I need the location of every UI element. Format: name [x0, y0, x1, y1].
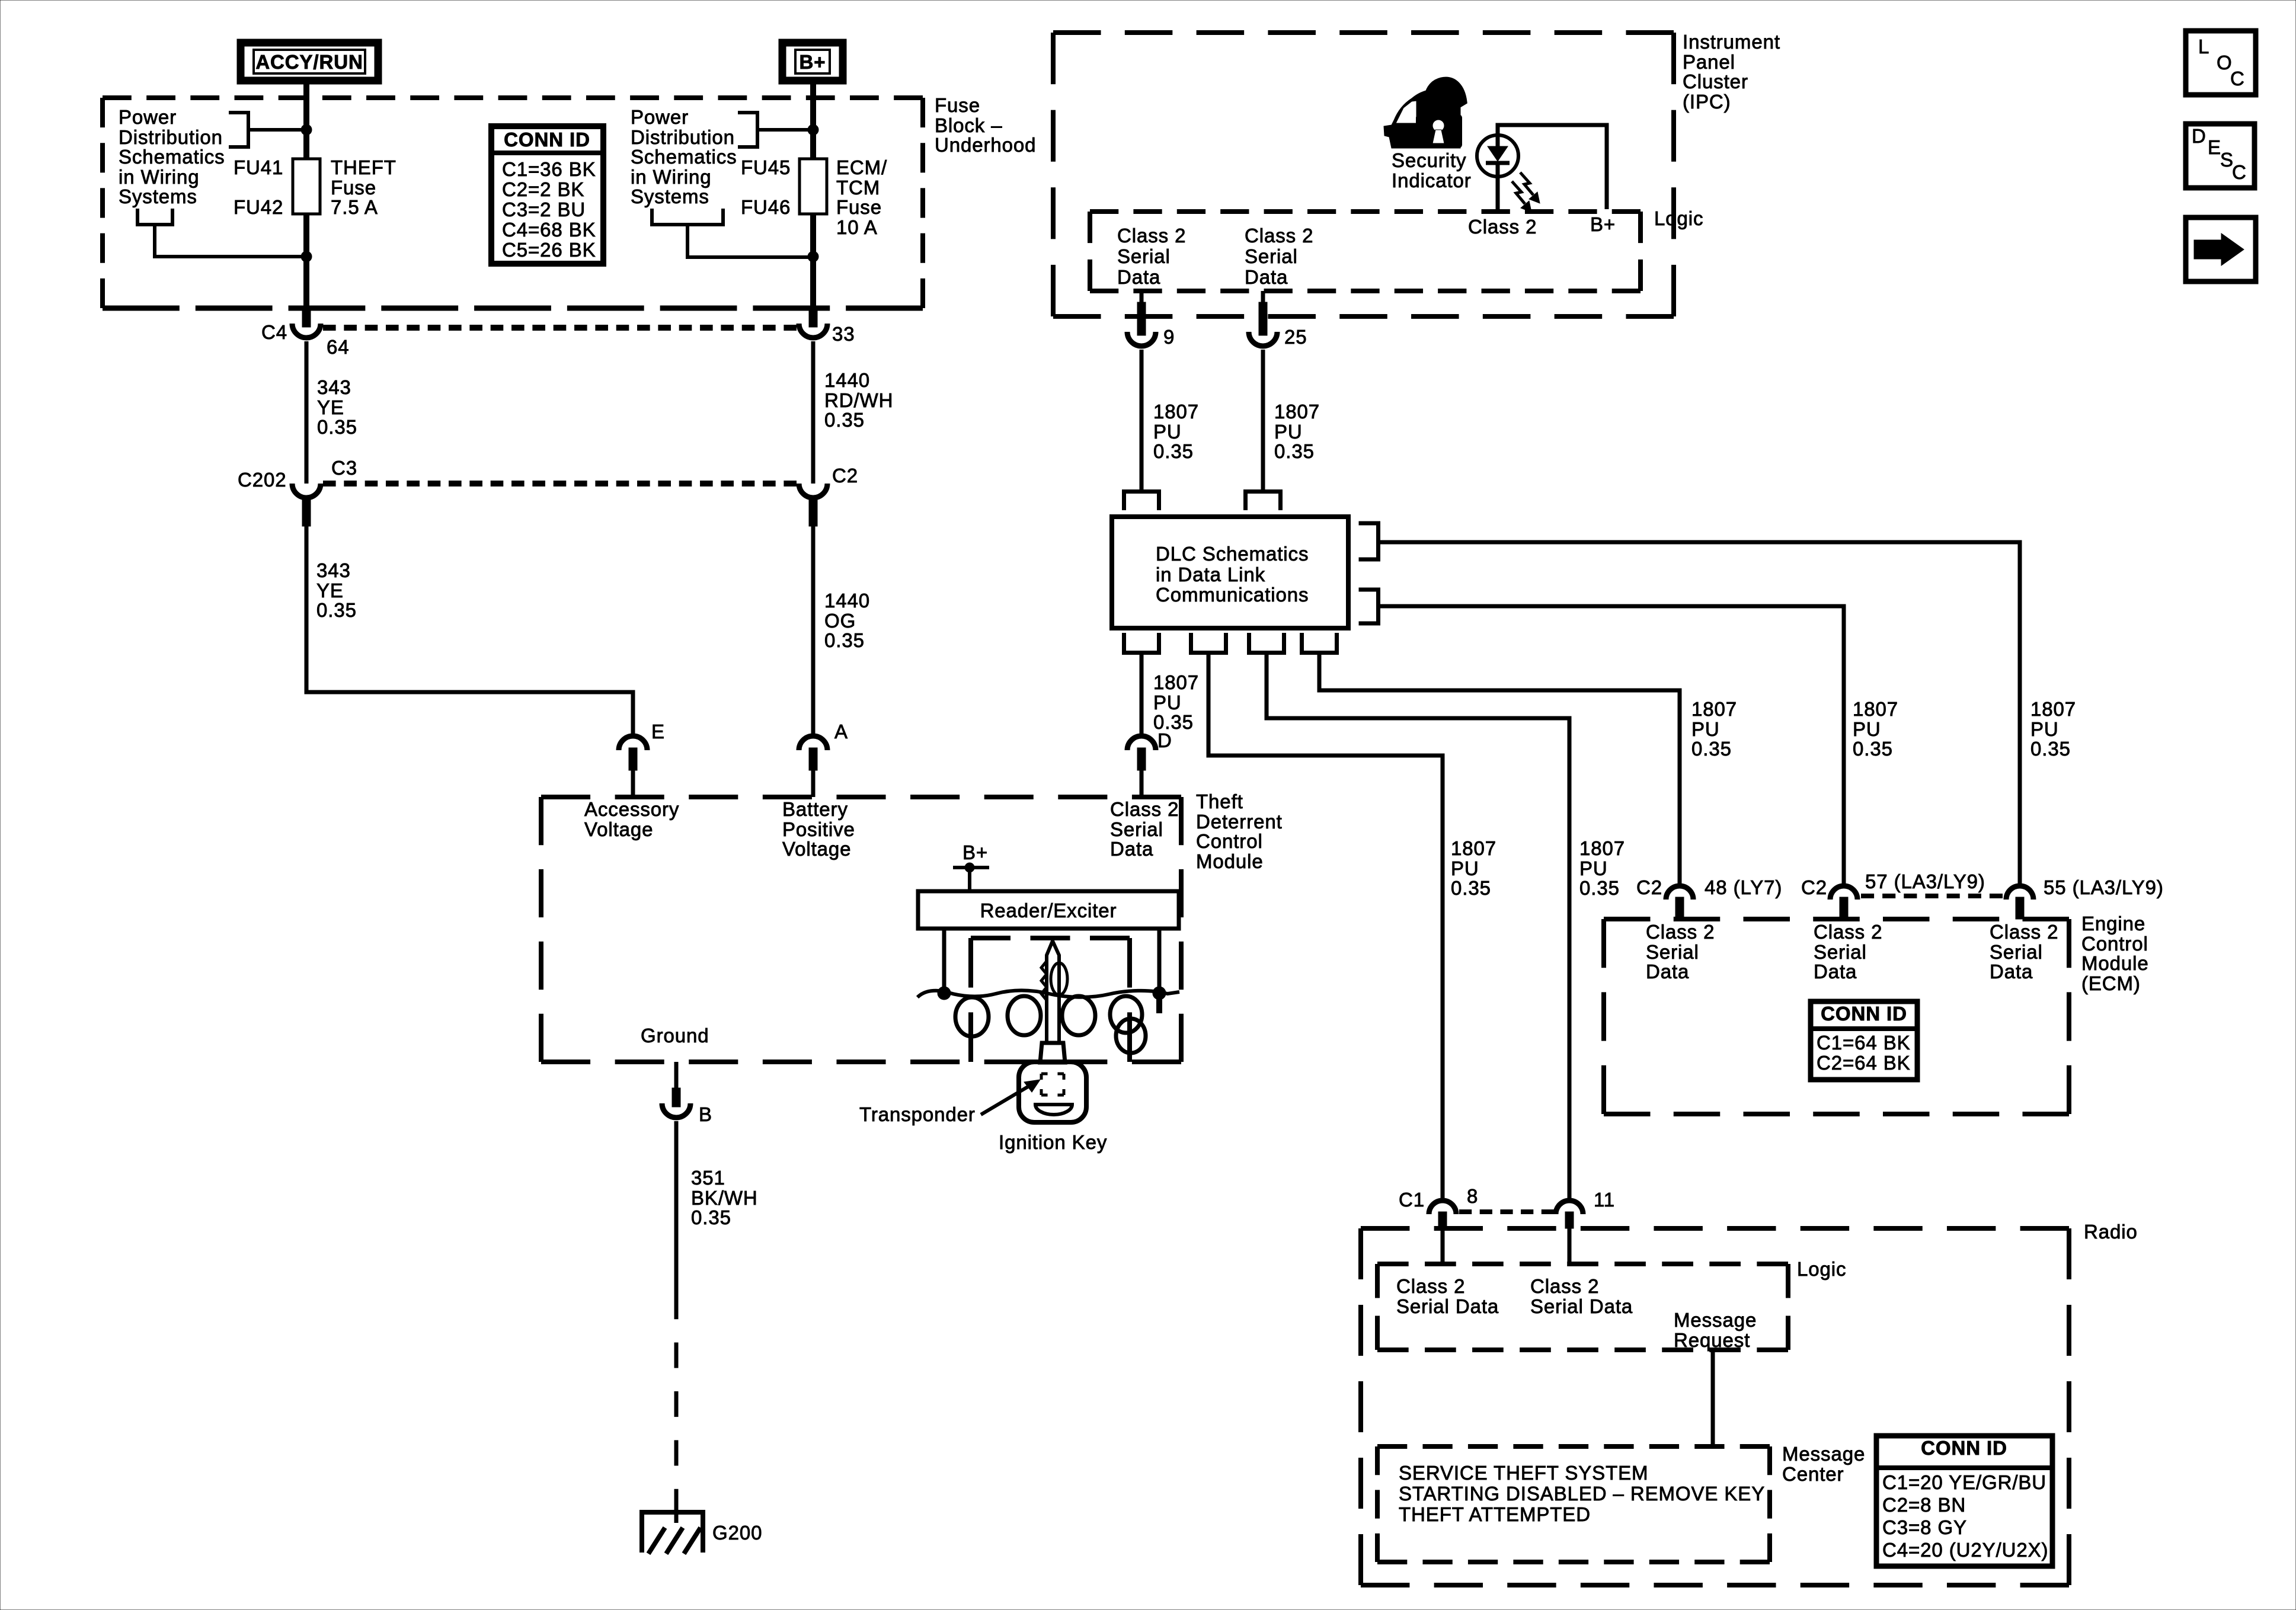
wire 351 BK/WH 0.35 [674, 1121, 679, 1294]
svg-text:C2: C2 [1636, 876, 1662, 898]
svg-text:Power: Power [119, 106, 177, 128]
svg-text:CONN ID: CONN ID [1821, 1003, 1907, 1025]
terminal label Battery Positive Voltage [782, 798, 855, 860]
svg-text:A: A [834, 721, 848, 742]
svg-text:Reader/Exciter: Reader/Exciter [980, 900, 1117, 921]
message center display text [1399, 1462, 1765, 1525]
svg-text:Serial: Serial [1646, 941, 1699, 963]
IPC logic sub-box [1090, 212, 1641, 291]
svg-text:C202: C202 [238, 469, 287, 491]
node left coil junction [938, 987, 951, 1000]
node: ACCY/RUN feed junction [301, 124, 312, 135]
label wire 1807 PU 0.35 (to ECM 55) [2030, 698, 2076, 760]
svg-text:Data: Data [1646, 961, 1689, 982]
svg-text:Logic: Logic [1797, 1258, 1846, 1280]
icon security indicator (car with padlock) [1384, 79, 1464, 148]
svg-text:Indicator: Indicator [1392, 169, 1472, 191]
svg-text:L: L [2198, 36, 2209, 57]
reference bracket lower-right [652, 209, 723, 225]
reference text Power Distribution Schematics (right) [631, 106, 737, 207]
svg-text:0.35: 0.35 [1451, 877, 1491, 899]
svg-text:Class 2: Class 2 [1396, 1275, 1465, 1297]
svg-text:Underhood: Underhood [935, 134, 1036, 156]
connector terminal A [799, 721, 848, 797]
module box Engine Control Module (ECM) [1604, 919, 2069, 1114]
in-line connector dashed line 57-55 [1861, 894, 2003, 898]
terminal label Accessory Voltage [584, 798, 679, 840]
svg-text:0.35: 0.35 [824, 409, 865, 431]
svg-text:Class 2: Class 2 [1814, 921, 1882, 943]
svg-text:Engine: Engine [2081, 913, 2145, 934]
transponder chip (dashed square) [1041, 1074, 1064, 1095]
svg-text:Serial: Serial [1990, 941, 2043, 963]
svg-text:0.35: 0.35 [1153, 440, 1194, 462]
svg-text:Ground: Ground [641, 1025, 709, 1046]
svg-text:B+: B+ [800, 51, 826, 73]
radio logic sub-box [1377, 1264, 1788, 1350]
wire 343 YE 0.35 to TDCM terminal E [306, 526, 633, 735]
svg-text:C2: C2 [1801, 876, 1827, 898]
label Theft Deterrent Control Module [1196, 790, 1283, 872]
svg-text:Center: Center [1782, 1463, 1844, 1485]
in-line connector dashed line C202 C3-C2 [323, 481, 797, 486]
svg-text:Transponder: Transponder [859, 1103, 976, 1125]
link wire from bracket to fuse output [155, 225, 304, 257]
svg-text:D: D [1157, 729, 1172, 751]
svg-text:25: 25 [1284, 326, 1307, 348]
label Fuse Block - Underhood [935, 94, 1036, 156]
svg-text:343: 343 [317, 376, 351, 398]
wire 1807 PU 0.35 DLC to TDCM terminal D [1140, 654, 1144, 735]
svg-text:0.35: 0.35 [317, 416, 357, 438]
svg-text:Control: Control [1196, 830, 1263, 852]
svg-text:PU: PU [1853, 718, 1881, 740]
svg-text:(ECM): (ECM) [2081, 972, 2141, 994]
label Transponder with arrow [859, 1080, 1040, 1125]
connector terminal B (ground) [662, 1062, 712, 1125]
label Message Center [1782, 1443, 1865, 1485]
label ECM/TCM Fuse 10 A [836, 156, 887, 238]
label wire 1807 PU 0.35 (to D) [1153, 671, 1199, 733]
svg-text:TCM: TCM [836, 177, 880, 199]
svg-text:Class 2: Class 2 [1245, 225, 1313, 247]
DLC bottom tab (to radio pin 11) [1249, 633, 1284, 653]
connector terminal E [619, 721, 665, 797]
label wire 1440 RD/WH 0.35 [824, 369, 893, 431]
svg-text:0.35: 0.35 [1691, 738, 1732, 760]
reference bracket upper-right [738, 113, 757, 147]
svg-text:Data: Data [1245, 266, 1288, 288]
svg-text:C4=20 (U2Y/U2X): C4=20 (U2Y/U2X) [1882, 1539, 2048, 1561]
power feed label B+ [782, 43, 843, 81]
wire 1807 PU 0.35 (IPC 25 to DLC) [1261, 350, 1265, 489]
svg-text:in Wiring: in Wiring [119, 166, 199, 188]
node: B+ feed junction [808, 124, 818, 135]
svg-text:Data: Data [1117, 266, 1160, 288]
svg-text:Serial Data: Serial Data [1396, 1295, 1499, 1317]
svg-text:1807: 1807 [1153, 401, 1199, 422]
transponder exciter field dashed box [971, 938, 1130, 1062]
svg-text:Systems: Systems [631, 185, 709, 207]
svg-text:FU45: FU45 [741, 156, 791, 178]
svg-text:48 (LY7): 48 (LY7) [1705, 876, 1782, 898]
svg-text:ACCY/RUN: ACCY/RUN [255, 51, 363, 73]
svg-text:C1=36 BK: C1=36 BK [502, 158, 596, 180]
DLC input tab (from IPC 9) [1124, 492, 1159, 511]
icon LOC box [2186, 31, 2256, 95]
svg-text:0.35: 0.35 [1853, 738, 1893, 760]
svg-text:Class 2: Class 2 [1990, 921, 2058, 943]
terminal label Class 2 Serial Data (ECM 48) [1646, 921, 1715, 982]
radio message center sub-box [1377, 1446, 1770, 1562]
svg-text:Systems: Systems [119, 185, 197, 207]
wire message request to message center [1711, 1350, 1715, 1446]
svg-text:FU46: FU46 [741, 196, 791, 218]
svg-text:BK/WH: BK/WH [691, 1187, 758, 1209]
terminal label Class 2 Serial Data (radio 8) [1396, 1275, 1499, 1317]
label Radio [2084, 1221, 2138, 1243]
node: ECM/TCM fuse output junction [808, 251, 818, 262]
svg-text:Schematics: Schematics [119, 146, 225, 168]
DLC input tab (from IPC 25) [1246, 492, 1281, 511]
wire DLC to radio pin 11 [1267, 654, 1569, 1199]
svg-text:57 (LA3/LY9): 57 (LA3/LY9) [1865, 870, 1985, 892]
svg-text:0.35: 0.35 [691, 1206, 731, 1228]
terminal label B+ (LED) [1590, 213, 1616, 235]
terminal label Class 2 Serial Data (IPC pin 9) [1117, 225, 1186, 288]
wire 343 YE 0.35 (circuit 343) [305, 341, 309, 484]
svg-text:Schematics: Schematics [631, 146, 737, 168]
svg-text:C2=8 BN: C2=8 BN [1882, 1494, 1966, 1516]
coil loop 4 [1110, 996, 1142, 1033]
svg-text:0.35: 0.35 [824, 629, 865, 651]
svg-text:1807: 1807 [1853, 698, 1898, 720]
wire LED anode to B+ [1498, 125, 1607, 209]
exciter coil wavy conductor [917, 990, 1179, 997]
block Reader/Exciter [918, 891, 1179, 929]
link wire to THEFT fuse feed [248, 128, 304, 132]
svg-text:1807: 1807 [1153, 671, 1199, 693]
svg-text:11: 11 [1594, 1189, 1615, 1211]
key bow slot [1035, 1105, 1072, 1115]
connector pin 33 [799, 307, 855, 345]
svg-text:YE: YE [316, 580, 344, 601]
svg-text:Communications: Communications [1156, 584, 1309, 606]
connector C202 pin C3 [238, 457, 357, 526]
svg-text:9: 9 [1163, 326, 1175, 348]
link wire from bracket to ECM/TCM fuse output [687, 225, 811, 257]
svg-text:351: 351 [691, 1167, 725, 1189]
label Security Indicator [1392, 149, 1472, 191]
connector pin C2 [799, 465, 858, 526]
connector pin 11 [1556, 1189, 1615, 1228]
svg-text:Block –: Block – [935, 114, 1003, 136]
internal B+ terminal [953, 841, 989, 891]
terminal label Class 2 Serial Data (ECM 57) [1814, 921, 1882, 982]
node: THEFT fuse output junction [301, 251, 312, 262]
connector pin 9 [1127, 291, 1175, 348]
svg-text:8: 8 [1467, 1185, 1478, 1207]
DLC right tab (to ECM pin 57) [1359, 590, 1379, 623]
svg-text:Class 2: Class 2 [1110, 798, 1179, 820]
wire DLC to radio pin 8 [1208, 654, 1443, 1199]
CONN ID table (radio) [1876, 1436, 2052, 1566]
svg-text:Serial: Serial [1814, 941, 1867, 963]
right coil tail [1156, 993, 1162, 1013]
svg-text:64: 64 [327, 336, 350, 358]
svg-text:7.5 A: 7.5 A [331, 196, 378, 218]
reference bracket lower-left [137, 209, 172, 225]
label wire 1807 PU 0.35 (to radio 11) [1579, 837, 1625, 899]
reference bracket upper-left [229, 113, 248, 147]
svg-text:Battery: Battery [782, 798, 848, 820]
svg-text:C2: C2 [832, 465, 858, 486]
wire 351 continuation (dashed) [674, 1294, 679, 1515]
svg-text:Control: Control [2081, 933, 2148, 955]
svg-text:Fuse: Fuse [836, 196, 882, 218]
svg-text:C1=20 YE/GR/BU: C1=20 YE/GR/BU [1882, 1471, 2046, 1493]
label wire 1807 PU 0.35 (to ECM 48) [1691, 698, 1737, 760]
svg-text:Serial: Serial [1110, 818, 1163, 840]
wire radio pin 11 to logic [1568, 1228, 1572, 1264]
svg-text:Theft: Theft [1196, 790, 1243, 812]
svg-text:Fuse: Fuse [331, 177, 376, 199]
link wire to ECM/TCM fuse feed [757, 128, 811, 132]
svg-text:Module: Module [1196, 850, 1264, 872]
pin FU41 [234, 156, 283, 178]
svg-text:0.35: 0.35 [2030, 738, 2071, 760]
svg-text:Panel: Panel [1683, 51, 1735, 73]
svg-text:C4=68 BK: C4=68 BK [502, 219, 596, 241]
ground G200 [639, 1512, 762, 1554]
svg-text:Power: Power [631, 106, 689, 128]
svg-text:DLC Schematics: DLC Schematics [1156, 543, 1309, 565]
svg-text:PU: PU [1451, 857, 1479, 879]
svg-text:Deterrent: Deterrent [1196, 811, 1283, 833]
svg-text:C3=2 BU: C3=2 BU [502, 199, 586, 220]
svg-text:Class 2: Class 2 [1646, 921, 1715, 943]
label wire 1440 OG 0.35 [824, 590, 870, 651]
wire DLC to ECM pin 55 [1378, 542, 2020, 884]
label Logic (radio) [1797, 1258, 1846, 1280]
svg-text:C1: C1 [1399, 1189, 1425, 1211]
svg-text:YE: YE [317, 396, 344, 418]
svg-text:10 A: 10 A [836, 216, 878, 238]
svg-text:1807: 1807 [1691, 698, 1737, 720]
svg-text:Ignition Key: Ignition Key [999, 1131, 1107, 1153]
svg-text:1807: 1807 [1579, 837, 1625, 859]
connector C2 pin 48 (LY7) [1636, 876, 1782, 919]
module box Theft Deterrent Control Module [541, 797, 1181, 1062]
module box Radio [1361, 1228, 2069, 1585]
fuse FU45/FU46 ECM/TCM Fuse 10 A [800, 159, 827, 214]
svg-text:0.35: 0.35 [1274, 440, 1315, 462]
svg-text:C3: C3 [331, 457, 357, 479]
svg-text:C: C [2232, 161, 2247, 183]
connector C2 pin 57 (LA3/LY9) [1801, 870, 1985, 919]
svg-text:G200: G200 [712, 1522, 762, 1544]
svg-text:Radio: Radio [2084, 1221, 2138, 1243]
svg-text:Message: Message [1674, 1309, 1757, 1331]
svg-text:in Data Link: in Data Link [1156, 564, 1265, 585]
LED security indicator lamp [1477, 135, 1518, 177]
svg-text:Fuse: Fuse [935, 94, 980, 116]
node right coil junction [1153, 987, 1166, 1000]
svg-text:1807: 1807 [1274, 401, 1320, 422]
label wire 1807 PU 0.35 (from pin 25) [1274, 401, 1320, 462]
svg-text:Logic: Logic [1654, 207, 1703, 229]
svg-text:E: E [651, 721, 665, 742]
svg-text:STARTING DISABLED – REMOVE KEY: STARTING DISABLED – REMOVE KEY [1399, 1483, 1765, 1505]
block DLC Schematics in Data Link Communications [1112, 517, 1348, 628]
svg-text:C2=64 BK: C2=64 BK [1817, 1052, 1911, 1074]
label wire 343 YE 0.35 (lower) [316, 559, 357, 621]
terminal label Class 2 (LED) [1468, 216, 1537, 238]
svg-text:FU42: FU42 [234, 196, 283, 218]
svg-text:C: C [2230, 68, 2245, 89]
wire radio pin 8 to logic [1441, 1228, 1445, 1264]
svg-text:PU: PU [1691, 718, 1720, 740]
svg-text:Security: Security [1392, 149, 1466, 171]
svg-text:C2=2 BK: C2=2 BK [502, 178, 584, 200]
svg-text:33: 33 [832, 323, 855, 345]
DLC bottom tab (to ECM pin 48) [1302, 633, 1337, 653]
svg-text:Accessory: Accessory [584, 798, 679, 820]
connector C1 pin 8 [1399, 1185, 1478, 1228]
svg-text:0.35: 0.35 [316, 599, 357, 621]
svg-text:C4: C4 [261, 321, 287, 343]
label Logic (IPC) [1654, 207, 1703, 229]
in-line connector dashed line 8-11 [1459, 1209, 1554, 1214]
wire from B+ through ECM/TCM fuse [810, 84, 816, 307]
terminal label Class 2 Serial Data (TDCM) [1110, 798, 1179, 860]
coil loop 5 [1116, 1019, 1146, 1053]
svg-text:PU: PU [2030, 718, 2059, 740]
svg-text:B: B [699, 1103, 712, 1125]
wire Reader/Exciter right leg [1157, 929, 1162, 993]
svg-text:55 (LA3/LY9): 55 (LA3/LY9) [2044, 876, 2164, 898]
label THEFT Fuse 7.5 A [331, 156, 396, 218]
svg-text:PU: PU [1579, 857, 1608, 879]
label wire 1807 PU 0.35 (to radio 8) [1451, 837, 1496, 899]
svg-text:Class 2: Class 2 [1117, 225, 1186, 247]
svg-text:OG: OG [824, 610, 856, 632]
svg-text:Class 2: Class 2 [1468, 216, 1537, 238]
svg-text:B+: B+ [962, 841, 988, 863]
CONN ID table (ECM) [1811, 1001, 1917, 1080]
svg-text:Request: Request [1674, 1329, 1750, 1351]
svg-text:Serial Data: Serial Data [1530, 1295, 1633, 1317]
ignition key blade [1041, 941, 1067, 1042]
svg-text:Serial: Serial [1117, 245, 1171, 267]
svg-text:PU: PU [1153, 692, 1182, 713]
svg-text:THEFT ATTEMPTED: THEFT ATTEMPTED [1399, 1503, 1591, 1525]
svg-text:D: D [2192, 125, 2207, 147]
svg-text:CONN ID: CONN ID [1921, 1437, 2007, 1459]
coil loop 3 [1062, 996, 1095, 1035]
wire 1807 PU 0.35 (IPC 9 to DLC) [1140, 350, 1144, 489]
connector pin 55 (LA3/LY9) [2006, 876, 2164, 919]
svg-text:1440: 1440 [824, 590, 870, 612]
icon DESC box [2186, 124, 2255, 188]
label Engine Control Module (ECM) [2081, 913, 2149, 994]
terminal label Class 2 Serial Data (IPC pin 25) [1245, 225, 1313, 288]
wire DLC to ECM pin 48 [1319, 654, 1680, 884]
svg-text:ECM/: ECM/ [836, 156, 887, 178]
svg-text:1807: 1807 [2030, 698, 2076, 720]
pin FU42 [234, 196, 283, 218]
svg-text:RD/WH: RD/WH [824, 389, 893, 411]
svg-text:CONN ID: CONN ID [504, 129, 590, 151]
connector pin 25 [1249, 291, 1307, 348]
power feed label ACCY/RUN [241, 43, 378, 81]
svg-text:Module: Module [2081, 952, 2149, 974]
LED emission arrows [1512, 172, 1540, 212]
in-line connector dashed line C4-33 [323, 325, 797, 331]
wire Reader/Exciter left leg [942, 929, 946, 993]
svg-text:Serial: Serial [1245, 245, 1298, 267]
label wire 343 YE 0.35 [317, 376, 357, 438]
svg-text:Voltage: Voltage [782, 838, 851, 860]
label wire 1807 PU 0.35 (to ECM 57) [1853, 698, 1898, 760]
reference text Power Distribution Schematics (left) [119, 106, 225, 207]
DLC bottom tab (to radio pin 8) [1191, 633, 1226, 653]
svg-text:0.35: 0.35 [1579, 877, 1620, 899]
connector C4 pin 64 [261, 307, 350, 358]
CONN ID table (fuse block) [491, 126, 603, 264]
svg-text:SERVICE THEFT SYSTEM: SERVICE THEFT SYSTEM [1399, 1462, 1648, 1484]
svg-text:Data: Data [1814, 961, 1857, 982]
svg-text:PU: PU [1153, 421, 1182, 443]
svg-text:THEFT: THEFT [331, 156, 396, 178]
terminal label Class 2 Serial Data (ECM 55) [1990, 921, 2058, 982]
wire DLC to ECM pin 57 [1378, 606, 1844, 884]
svg-text:1440: 1440 [824, 369, 870, 391]
terminal label Class 2 Serial Data (radio 11) [1530, 1275, 1633, 1317]
ignition key bow [1019, 1062, 1086, 1122]
DLC right tab (to ECM pin 55) [1359, 523, 1379, 559]
svg-text:Data: Data [1110, 838, 1153, 860]
label Ignition Key [999, 1131, 1107, 1153]
coil loop 1 [955, 997, 989, 1036]
label wire 1807 PU 0.35 (from pin 9) [1153, 401, 1199, 462]
fuse FU41/FU42 THEFT Fuse 7.5 A [293, 159, 320, 214]
fuse block module box bottom edge [103, 306, 923, 311]
svg-text:B+: B+ [1590, 213, 1616, 235]
svg-text:FU41: FU41 [234, 156, 283, 178]
icon forward arrow box [2186, 217, 2256, 281]
svg-text:C5=26 BK: C5=26 BK [502, 239, 596, 261]
pin FU46 [741, 196, 791, 218]
svg-text:in Wiring: in Wiring [631, 166, 711, 188]
svg-text:Cluster: Cluster [1683, 71, 1748, 92]
svg-text:PU: PU [1274, 421, 1303, 443]
fuse block module box (Fuse Block - Underhood) [103, 98, 923, 308]
wire 1440 OG 0.35 to TDCM terminal A [811, 526, 816, 735]
svg-text:Class 2: Class 2 [1530, 1275, 1599, 1297]
label Message Request [1674, 1309, 1757, 1351]
svg-text:Positive: Positive [782, 818, 855, 840]
terminal label Ground [641, 1025, 709, 1046]
svg-text:343: 343 [316, 559, 351, 581]
wire from ACCY/RUN through THEFT fuse [303, 84, 309, 307]
svg-text:Voltage: Voltage [584, 818, 653, 840]
pin FU45 [741, 156, 791, 178]
svg-text:Distribution: Distribution [119, 126, 223, 148]
svg-text:C1=64 BK: C1=64 BK [1817, 1032, 1911, 1054]
coil loop 2 [1008, 996, 1041, 1035]
module box Instrument Panel Cluster (IPC) [1053, 33, 1674, 316]
